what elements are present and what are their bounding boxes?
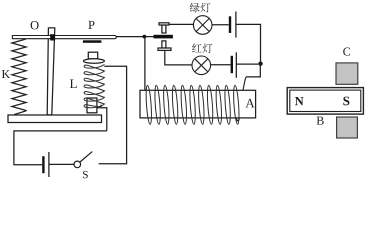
wire: green lamp to battery xyxy=(212,24,229,26)
iron block C upper xyxy=(336,63,358,84)
pivot O (black) xyxy=(50,34,55,40)
label S xyxy=(83,171,88,178)
green battery negative plate xyxy=(229,16,231,33)
label A xyxy=(245,99,254,108)
label K xyxy=(2,70,10,78)
electromagnet L winding xyxy=(84,64,104,107)
armature contact plate P (black) xyxy=(83,40,102,43)
red battery positive plate xyxy=(235,52,237,78)
label O xyxy=(31,21,39,29)
armature pivot post xyxy=(47,28,55,115)
electromagnet L core cap xyxy=(88,52,97,59)
label S pole xyxy=(343,97,349,106)
spring K xyxy=(12,39,26,115)
red battery negative plate xyxy=(231,56,233,73)
wire: lever to junction xyxy=(116,36,153,38)
wire: junction down to solenoid A right xyxy=(246,64,260,77)
battery (main) negative plate xyxy=(42,156,44,173)
switch S blade xyxy=(80,152,92,162)
magnet B outer shell xyxy=(287,88,363,115)
wire: switch to coil L top xyxy=(99,66,127,164)
wire: red battery to junction xyxy=(237,63,258,65)
red lamp xyxy=(192,56,211,75)
wire: lower contact to red lamp xyxy=(165,50,192,65)
switch S hinge xyxy=(74,161,81,168)
label L xyxy=(70,79,77,88)
battery (main) positive plate xyxy=(48,152,50,177)
solenoid A winding xyxy=(145,85,152,124)
wire: battery to switch xyxy=(50,163,75,165)
wire: bottom-left loop xyxy=(14,131,107,165)
upper fixed contact bar xyxy=(159,23,169,25)
moving contact (black) xyxy=(154,35,173,39)
label P xyxy=(88,21,94,29)
wire: junction down to solenoid A left xyxy=(144,37,146,91)
green battery positive plate xyxy=(235,12,237,38)
label B xyxy=(317,117,324,125)
solenoid lead-in turn xyxy=(236,77,246,121)
lower fixed contact bar xyxy=(158,48,171,50)
magnet B inner face xyxy=(290,90,361,111)
lower fixed contact stem xyxy=(162,41,166,48)
wire: green battery to right bus xyxy=(237,24,261,61)
junction node (lever / solenoid) xyxy=(143,35,147,39)
label green lamp xyxy=(190,3,200,13)
electromagnet L bottom block xyxy=(87,98,97,113)
green lamp xyxy=(193,16,212,35)
junction node (right bus) xyxy=(258,62,262,66)
label N pole xyxy=(295,97,304,105)
base platform xyxy=(8,115,102,123)
solenoid A core xyxy=(140,90,256,118)
electromagnet L top disc xyxy=(83,59,104,64)
label C xyxy=(343,48,350,56)
wire: upper contact to green lamp xyxy=(169,23,194,25)
label red lamp xyxy=(192,43,202,52)
wire: coil L bottom to right xyxy=(97,108,107,131)
wire: red lamp to battery xyxy=(211,64,231,66)
upper fixed contact stem xyxy=(162,25,166,33)
armature lever O-P xyxy=(12,36,116,39)
iron block C lower xyxy=(337,117,358,138)
